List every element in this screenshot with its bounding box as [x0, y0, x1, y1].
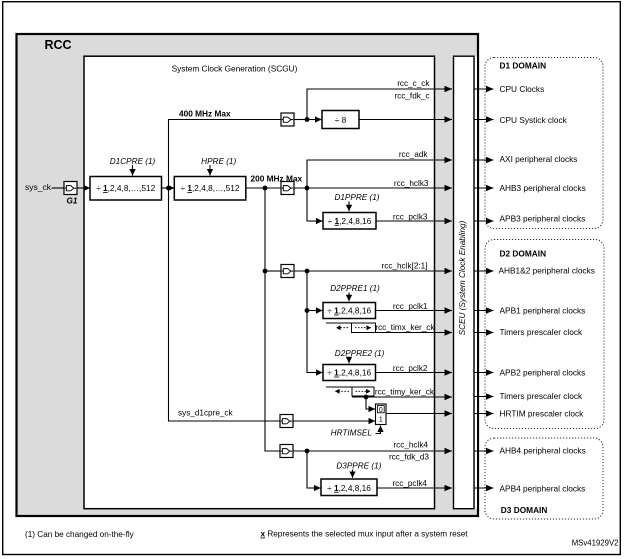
SCGU box — [84, 56, 435, 509]
wire rcc_hclk4 — [293, 450, 452, 452]
D2 DOMAIN box — [485, 240, 604, 429]
svg-text:rcc_pclk1: rcc_pclk1 — [393, 302, 428, 311]
clock gate (hclk3) — [281, 182, 294, 195]
svg-text:CPU Systick clock: CPU Systick clock — [500, 115, 568, 125]
svg-text:D2PPRE2 (1): D2PPRE2 (1) — [335, 349, 385, 358]
wire to AXI — [474, 159, 494, 161]
svg-text:System Clock Generation (SCGU): System Clock Generation (SCGU) — [172, 63, 298, 73]
divider D2PPRE1 — [323, 303, 376, 319]
wire to AHB4 — [474, 450, 494, 452]
wire rcc_pclk3 — [376, 220, 452, 222]
svg-text:D3 DOMAIN: D3 DOMAIN — [501, 505, 548, 515]
wire to APB2 — [474, 372, 494, 374]
wire HRTIMSEL select — [376, 433, 381, 434]
wire rcc_timx_ker_ck — [352, 332, 453, 334]
clock gate (hclk21) — [281, 265, 294, 278]
divider D2PPRE2 — [323, 365, 376, 381]
wire rcc_timy_ker_ck — [352, 396, 452, 398]
wire mux output to SCEU — [386, 413, 452, 415]
clock gate (sys_d1cpre) — [280, 415, 293, 428]
wire to Timers2 — [474, 396, 494, 398]
node junction c_ck — [305, 117, 310, 122]
svg-text:0: 0 — [379, 407, 383, 414]
svg-text:÷ 1,2,4,8,16: ÷ 1,2,4,8,16 — [327, 306, 371, 316]
svg-text:HRTIMSEL: HRTIMSEL — [331, 429, 372, 438]
svg-text:Timers prescaler clock: Timers prescaler clock — [500, 327, 584, 337]
svg-text:Timers prescaler clock: Timers prescaler clock — [500, 391, 584, 401]
wire to CPU Clocks — [474, 88, 494, 90]
gap strip right of SCEU — [475, 57, 477, 509]
wire to HRTIM mux input 0 — [366, 397, 368, 409]
wire rcc_pclk4 — [377, 487, 452, 489]
divider HPRE — [174, 177, 246, 201]
clock gate (d1cpre branch) — [281, 113, 294, 126]
wire G1 to D1CPRE with arrow — [77, 187, 90, 189]
node junction d2ppre1 — [305, 308, 310, 313]
wire rcc_pclk2 — [376, 372, 453, 374]
wire rcc_adk — [307, 160, 445, 188]
svg-text:÷ 1,2,4,8,16: ÷ 1,2,4,8,16 — [328, 216, 372, 226]
svg-text:rcc_fdk_d3: rcc_fdk_d3 — [389, 452, 429, 461]
wire rcc_hclk[2:1] — [294, 270, 452, 272]
svg-text:AHB1&2 peripheral clocks: AHB1&2 peripheral clocks — [499, 265, 595, 275]
svg-text:HRTIM prescaler clock: HRTIM prescaler clock — [500, 408, 585, 418]
clock gate G1 — [64, 182, 77, 195]
SCEU box — [454, 56, 475, 509]
svg-text:D3PPRE (1): D3PPRE (1) — [336, 461, 381, 470]
svg-text:D1PPRE (1): D1PPRE (1) — [334, 193, 379, 202]
wire sys_ck to gate G1 — [52, 187, 65, 189]
timer mul selector timy — [326, 387, 374, 396]
divider D1CPRE — [90, 177, 162, 201]
svg-text:÷ 8: ÷ 8 — [335, 115, 347, 125]
wire junction to HPRE with arrow — [169, 187, 175, 189]
svg-text:rcc_c_ck: rcc_c_ck — [397, 79, 430, 88]
svg-text:(1) Can be changed on-the-fly: (1) Can be changed on-the-fly — [25, 530, 135, 539]
svg-text:rcc_timy_ker_ck: rcc_timy_ker_ck — [375, 388, 435, 397]
arrow D1PPRE label to box — [348, 202, 350, 212]
svg-text:D2PPRE1 (1): D2PPRE1 (1) — [330, 284, 380, 293]
svg-text:÷ 1,2,4,8,…,512: ÷ 1,2,4,8,…,512 — [181, 183, 240, 193]
svg-text:D2 DOMAIN: D2 DOMAIN — [500, 248, 547, 258]
svg-text:÷ 1,2,4,8,16: ÷ 1,2,4,8,16 — [327, 368, 371, 378]
svg-text:rcc_fdk_c: rcc_fdk_c — [394, 91, 429, 100]
node junction hclk21 — [263, 269, 268, 274]
arrow HPRE label to box — [209, 165, 211, 176]
divider D3PPRE — [321, 479, 377, 496]
svg-text:AHB3 peripheral clocks: AHB3 peripheral clocks — [500, 183, 586, 193]
svg-text:400 MHz Max: 400 MHz Max — [179, 109, 231, 119]
svg-text:rcc_pclk2: rcc_pclk2 — [393, 364, 428, 373]
wire to APB4 — [474, 487, 494, 489]
wire to AHB3 — [474, 187, 494, 189]
svg-text:200 MHz Max: 200 MHz Max — [251, 173, 303, 183]
wire rcc_hclk3 — [294, 187, 452, 189]
D3 DOMAIN box — [485, 438, 603, 519]
D1 DOMAIN box — [485, 58, 603, 229]
svg-text:RCC: RCC — [45, 38, 72, 52]
svg-text:HPRE (1): HPRE (1) — [201, 157, 236, 166]
mux HRTIMSEL — [376, 404, 387, 425]
RCC block (gray) — [17, 34, 479, 516]
clock gate (hclk4) — [280, 445, 293, 458]
svg-text:÷ 1,2,4,8,16: ÷ 1,2,4,8,16 — [327, 483, 371, 493]
node junction hrtim mux — [364, 395, 369, 400]
svg-text:rcc_timx_ker_ck: rcc_timx_ker_ck — [375, 323, 435, 332]
wire to APB1 — [474, 310, 494, 312]
svg-text:G1: G1 — [67, 197, 78, 206]
wire to HRTIM — [474, 413, 494, 415]
node junction hclk4 — [305, 449, 310, 454]
wire into D2PPRE1 — [307, 310, 323, 312]
svg-text:APB4 peripheral clocks: APB4 peripheral clocks — [500, 483, 586, 493]
svg-text:D1 DOMAIN: D1 DOMAIN — [500, 61, 547, 71]
svg-text:x Represents the selected mux: x Represents the selected mux input afte… — [261, 530, 469, 539]
arrow D3PPRE label to box — [352, 470, 354, 478]
svg-text:CPU Clocks: CPU Clocks — [500, 84, 545, 94]
svg-text:rcc_pclk3: rcc_pclk3 — [393, 212, 428, 221]
wire div8 to SCEU — [359, 119, 452, 121]
node junction hclk branch — [263, 186, 268, 191]
timer mul selector timx — [326, 323, 376, 333]
wire sys_d1cpre_ck — [169, 188, 281, 421]
wire into hclk21 gate — [265, 270, 281, 272]
svg-text:APB3 peripheral clocks: APB3 peripheral clocks — [500, 213, 586, 223]
wire to CPU Systick — [474, 119, 494, 121]
wire gate to div8 junction — [294, 119, 307, 121]
wire HPRE out — [246, 187, 281, 189]
svg-text:rcc_hclk4: rcc_hclk4 — [393, 440, 428, 449]
svg-text:SCEU (System Clock Enabling): SCEU (System Clock Enabling) — [458, 220, 467, 335]
wire to APB3 — [474, 220, 494, 222]
wire into D2PPRE2 — [309, 372, 323, 374]
svg-text:1: 1 — [379, 417, 383, 424]
svg-text:rcc_adk: rcc_adk — [399, 150, 429, 159]
node junction d2ppre branch — [305, 269, 310, 274]
arrow D2PPRE1 label to box — [348, 293, 350, 302]
wire rcc_pclk1 — [376, 310, 453, 312]
svg-text:rcc_pclk4: rcc_pclk4 — [392, 479, 427, 488]
wire vertical d2ppre — [307, 271, 310, 373]
node junction after D1CPRE — [166, 186, 171, 191]
wire vertical to lower rows — [265, 188, 280, 451]
arrow D1CPRE label to box — [132, 165, 134, 176]
svg-text:sys_d1cpre_ck: sys_d1cpre_ck — [178, 408, 234, 417]
svg-text:rcc_hclk3: rcc_hclk3 — [394, 179, 429, 188]
svg-text:AHB4 peripheral clocks: AHB4 peripheral clocks — [500, 446, 586, 456]
wire rcc_c_ck — [307, 89, 445, 120]
svg-text:APB1 peripheral clocks: APB1 peripheral clocks — [500, 305, 586, 315]
divider /8 — [322, 111, 359, 129]
wire to AHB1&2 — [474, 270, 494, 272]
svg-text:D1CPRE (1): D1CPRE (1) — [110, 157, 156, 166]
svg-text:MSv41929V2: MSv41929V2 — [572, 539, 619, 548]
svg-text:AXI peripheral clocks: AXI peripheral clocks — [500, 154, 578, 164]
svg-text:APB2 peripheral clocks: APB2 peripheral clocks — [500, 367, 586, 377]
wire junction to div8 — [307, 119, 322, 121]
wire 400MHz branch vertical — [169, 120, 282, 189]
wire gate to mux input 1 — [293, 420, 375, 422]
arrow D2PPRE2 label to box — [348, 357, 350, 363]
wire branch to D3PPRE — [307, 451, 310, 488]
divider D1PPRE — [323, 213, 376, 230]
wire branch to D1PPRE — [307, 188, 310, 221]
svg-text:sys_ck: sys_ck — [25, 182, 52, 192]
node junction adk/pclk3 — [305, 186, 310, 191]
wire to Timers1 — [474, 332, 494, 334]
svg-text:÷ 1,2,4,8,…,512: ÷ 1,2,4,8,…,512 — [96, 183, 155, 193]
wire D1CPRE out — [162, 187, 169, 189]
svg-text:rcc_hclk[2:1]: rcc_hclk[2:1] — [382, 262, 428, 271]
